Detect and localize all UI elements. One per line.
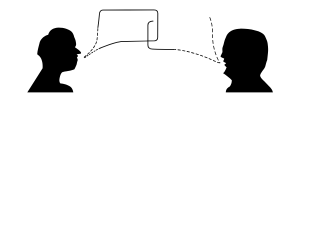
small bubble tail: dashed descent to right mouth xyxy=(174,49,220,63)
big speech bubble top and right sides xyxy=(98,10,158,41)
right head silhouette xyxy=(221,29,273,93)
left head silhouette xyxy=(27,28,81,93)
big speech bubble bottom edge running left, fading to dots near the mouth xyxy=(100,41,147,48)
small speech bubble: top-left corner, left edge, bottom corner flowing into its tail xyxy=(148,21,174,49)
big speech bubble outline (top, left tail dashed toward left mouth) xyxy=(84,28,98,58)
dotted continuation of bubble bottom toward left mouth xyxy=(85,48,101,58)
dashed curve from above right head converging to its mouth xyxy=(210,18,220,63)
